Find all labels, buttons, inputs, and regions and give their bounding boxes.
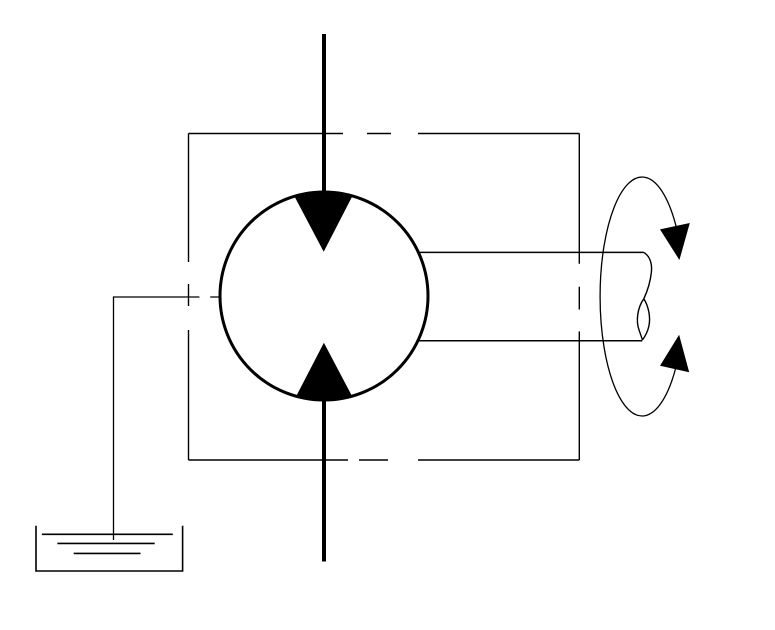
- tank / reservoir: [36, 526, 183, 571]
- rotation arrowhead top: [660, 223, 690, 260]
- wire: thick vertical port line (bottom segment): [322, 394, 326, 562]
- rotation arrowhead bottom: [660, 335, 689, 373]
- hydraulic motor M1 (circle): [220, 192, 428, 400]
- wire: thick vertical port line (top segment): [322, 34, 326, 199]
- drain line (wire to tank): [114, 297, 221, 540]
- flow arrow bottom (solid triangle pointing up): [296, 343, 351, 400]
- flow arrow top (solid triangle pointing down): [295, 193, 353, 252]
- rotation indicator elliptical arc: [600, 177, 676, 416]
- enclosure boundary (dashed box): [189, 134, 580, 461]
- drive shaft (two horizontal lines): [418, 252, 644, 340]
- shaft break squiggle: [637, 252, 651, 340]
